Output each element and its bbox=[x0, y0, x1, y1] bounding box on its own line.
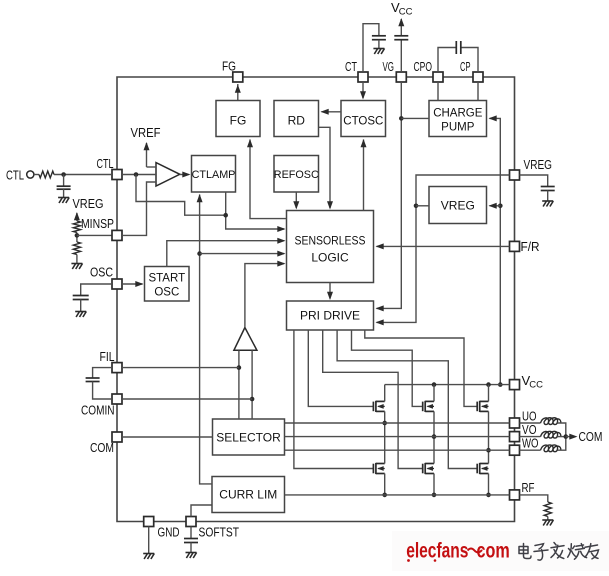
ground for VREG capacitor bbox=[542, 201, 553, 207]
pin F/R bbox=[510, 241, 520, 251]
START OSC output to SENSORLESS bbox=[167, 241, 284, 267]
FG output wire from SENSORLESS up to FG block bbox=[250, 140, 287, 219]
external VREG wire to capacitor bbox=[520, 175, 548, 187]
feedback staircase wire CTL junction to CTLAMP bottom node bbox=[136, 175, 226, 216]
svg-text:FG: FG bbox=[230, 114, 247, 128]
CTOSC to RD arrow bbox=[322, 111, 342, 113]
resistor on RF pin bbox=[544, 502, 551, 517]
COM output arrow and label bbox=[566, 436, 575, 438]
SENSORLESS bottom to PRI DRIVE arrow bbox=[329, 283, 331, 299]
svg-text:elecfans: elecfans bbox=[406, 538, 468, 562]
capacitor on SOFTST bbox=[184, 539, 198, 543]
WO phase line from SELECTOR to pin bbox=[285, 449, 510, 451]
block FG bbox=[216, 101, 260, 137]
svg-text:VREF: VREF bbox=[131, 126, 161, 140]
svg-text:VREG: VREG bbox=[524, 158, 553, 172]
pin MINSP bbox=[112, 230, 122, 240]
pin VREG right bbox=[510, 170, 520, 180]
svg-text:OSC: OSC bbox=[154, 287, 179, 299]
svg-text:OSC: OSC bbox=[90, 266, 113, 280]
VCC feed up to CHARGE PUMP right input bbox=[490, 118, 501, 384]
CT pin to CTOSC arrow bbox=[362, 82, 364, 98]
gate wire S5 to high-side V FET bbox=[352, 330, 423, 406]
wire resistor to CTL pin with junction bbox=[54, 174, 112, 176]
gate wire S1 to low-side U FET bbox=[294, 330, 374, 469]
block PRI DRIVE bbox=[287, 301, 374, 330]
transistor Q2 high-side V bbox=[423, 401, 434, 412]
svg-text:SELECTOR: SELECTOR bbox=[216, 431, 281, 445]
block SENSORLESS LOGIC bbox=[287, 211, 374, 283]
svg-text:SOFTST: SOFTST bbox=[199, 526, 240, 540]
block RD bbox=[274, 101, 319, 137]
pin GND bbox=[144, 517, 154, 527]
CPO wire to CHARGE PUMP bbox=[437, 82, 439, 101]
ground for OSC capacitor bbox=[75, 312, 86, 318]
capacitor on CTL input bbox=[57, 186, 71, 189]
ground symbol GND pin bbox=[143, 554, 154, 560]
capacitor on VREG pin bbox=[541, 187, 555, 191]
COM wire to SELECTOR bbox=[122, 436, 213, 438]
block CHARGE PUMP bbox=[429, 101, 487, 137]
svg-text:WO: WO bbox=[522, 437, 539, 451]
wire SOFTST pin to CURR LIM bbox=[191, 505, 212, 517]
capacitor on VCC line bbox=[394, 36, 408, 40]
svg-text:REFOSC: REFOSC bbox=[274, 169, 319, 181]
REFOSC down to SENSORLESS top bbox=[295, 192, 297, 208]
svg-text:COM: COM bbox=[90, 441, 114, 455]
triangle right input from SELECTOR with COMIN tap bbox=[251, 350, 253, 419]
svg-text:MINSP: MINSP bbox=[81, 217, 114, 231]
svg-text:CTL: CTL bbox=[6, 169, 24, 183]
transistor Q6 low-side W bbox=[477, 463, 488, 474]
RF sense line from CURR LIM to RF pin bbox=[285, 494, 510, 496]
elecfans logo background bbox=[392, 531, 609, 571]
wire cap to ground bbox=[190, 543, 192, 553]
wire resistor to MINSP junction bbox=[76, 233, 78, 243]
pin VO bbox=[510, 432, 520, 442]
svg-text:CP: CP bbox=[460, 60, 471, 74]
pin CTL bbox=[112, 170, 122, 180]
pin COMIN bbox=[112, 394, 122, 404]
pin FIL bbox=[112, 363, 122, 373]
VO phase line from SELECTOR to pin bbox=[285, 436, 510, 438]
svg-text:CTLAMP: CTLAMP bbox=[192, 169, 236, 181]
svg-text:SENSORLESS: SENSORLESS bbox=[295, 234, 366, 248]
op-amp comparator at CTL bbox=[156, 163, 180, 186]
CTL wire into comparator bbox=[122, 174, 156, 176]
pin RF bbox=[510, 490, 520, 500]
wire resistor to ground bbox=[76, 255, 78, 264]
block CURR LIM bbox=[212, 477, 285, 513]
capacitor on CT pin bbox=[372, 36, 386, 40]
gate wire S6 to high-side W FET bbox=[365, 330, 477, 406]
ground for MINSP divider bbox=[71, 264, 82, 270]
ground for SOFTST capacitor bbox=[186, 553, 197, 559]
pin CPO bbox=[433, 72, 443, 82]
wire SOFTST pin to capacitor bbox=[190, 527, 192, 539]
wire junction to MINSP pin bbox=[77, 234, 112, 236]
wire cap to ground bbox=[80, 300, 82, 312]
svg-text:com: com bbox=[477, 538, 510, 562]
U phase bus bbox=[384, 385, 386, 402]
svg-text:VO: VO bbox=[522, 423, 537, 437]
CTLAMP bottom to SENSORLESS input bbox=[226, 192, 285, 229]
external RF wire to resistor bbox=[520, 495, 548, 502]
resistor VREG to MINSP bbox=[73, 221, 80, 233]
wire junction down to capacitor bbox=[63, 175, 65, 187]
svg-text:FIL: FIL bbox=[100, 350, 115, 364]
long vertical CURR LIM to CTLAMP with branch to SENSORLESS bbox=[200, 195, 212, 484]
svg-text:PRI DRIVE: PRI DRIVE bbox=[300, 309, 360, 323]
svg-text:FG: FG bbox=[222, 60, 236, 74]
svg-text:VREG: VREG bbox=[73, 197, 104, 211]
svg-text:UO: UO bbox=[522, 410, 537, 424]
external OSC wire to capacitor bbox=[81, 284, 112, 296]
motor common bus bbox=[558, 423, 566, 450]
comparator lower input wire from MINSP bbox=[122, 182, 156, 235]
pin COM bbox=[112, 432, 122, 442]
inductor WO phase bbox=[520, 449, 541, 451]
gate wire S2 to high-side U FET bbox=[308, 330, 373, 406]
block CTLAMP bbox=[192, 156, 236, 193]
svg-text:CTL: CTL bbox=[97, 157, 114, 171]
W phase bus bbox=[488, 385, 490, 402]
gate wire S3 to low-side V FET bbox=[323, 330, 423, 469]
wire FG block to FG pin with up arrow bbox=[237, 84, 239, 101]
CTL input terminal circle bbox=[27, 171, 34, 178]
block SELECTOR bbox=[213, 419, 285, 455]
svg-text:LOGIC: LOGIC bbox=[311, 251, 349, 265]
Chinese brand characters bbox=[519, 543, 599, 561]
svg-text:CC: CC bbox=[529, 380, 543, 391]
RD output down to SENSORLESS top bbox=[319, 127, 331, 208]
F/R wire to SENSORLESS bbox=[377, 245, 510, 247]
VREG pin line down to PRI DRIVE with VREG block branch bbox=[377, 175, 510, 322]
svg-text:CHARGE: CHARGE bbox=[433, 108, 483, 120]
wire cap to ground bbox=[547, 191, 549, 202]
pin SOFTST bbox=[186, 517, 196, 527]
inductor UO phase bbox=[520, 422, 541, 424]
FIL wire to triangle input bbox=[122, 367, 239, 369]
svg-text:GND: GND bbox=[158, 526, 180, 540]
transistor Q4 low-side U bbox=[373, 463, 384, 474]
block CTOSC bbox=[341, 101, 386, 137]
block REFOSC bbox=[274, 156, 319, 193]
svg-text:CURR LIM: CURR LIM bbox=[219, 488, 277, 502]
series resistor on CTL input bbox=[39, 171, 54, 178]
pin UO bbox=[510, 418, 520, 428]
external VCC wire from VG pin bbox=[400, 40, 402, 72]
pin CP bbox=[473, 72, 483, 82]
svg-text:CPO: CPO bbox=[414, 60, 433, 74]
flying capacitor CPO-CP bbox=[456, 41, 461, 54]
VCC rail bbox=[385, 384, 510, 386]
resistor MINSP to ground bbox=[73, 242, 80, 255]
COMIN wire to triangle input bbox=[122, 398, 252, 400]
external filter wire COMIN side bbox=[93, 382, 112, 400]
external flying capacitor wires bbox=[438, 48, 456, 73]
pin OSC bbox=[112, 279, 122, 289]
svg-text:RD: RD bbox=[288, 114, 306, 128]
triangle output up to SENSORLESS bbox=[245, 264, 284, 328]
VREF wire with up arrow bbox=[147, 166, 157, 168]
svg-text:COMIN: COMIN bbox=[81, 404, 115, 418]
CP wire to CHARGE PUMP bbox=[477, 82, 479, 101]
transistor Q3 high-side W bbox=[477, 401, 488, 412]
svg-text:COM: COM bbox=[579, 430, 603, 444]
external filter wire FIL side bbox=[93, 368, 112, 378]
pin CT bbox=[358, 72, 368, 82]
capacitor on OSC pin bbox=[73, 296, 89, 300]
svg-text:CT: CT bbox=[345, 60, 357, 74]
wire cap to ground bbox=[378, 40, 380, 49]
filter capacitor FIL-COMIN bbox=[86, 378, 100, 382]
wire terminal to resistor bbox=[34, 174, 39, 176]
IC outer boundary box bbox=[117, 77, 515, 522]
OSC pin to START OSC arrow bbox=[122, 283, 143, 285]
pin VCC right bbox=[510, 380, 520, 390]
V phase bus bbox=[433, 385, 435, 402]
pin VG bbox=[396, 72, 406, 82]
wire GND pin to ground bbox=[148, 527, 150, 554]
SENSORLESS top to CTOSC bottom arrow bbox=[363, 140, 365, 211]
wire cap to ground bbox=[63, 189, 65, 197]
svg-text:PUMP: PUMP bbox=[441, 122, 475, 134]
inductor VO phase bbox=[520, 436, 541, 438]
elecfans.com red logo text bbox=[406, 538, 468, 562]
svg-text:VREG: VREG bbox=[441, 199, 475, 213]
svg-text:F/R: F/R bbox=[521, 240, 540, 254]
ground for RF resistor bbox=[542, 520, 553, 526]
gate wire S4 to low-side W FET bbox=[337, 330, 477, 469]
big triangle amplifier above SELECTOR bbox=[234, 328, 257, 351]
transistor Q1 high-side U bbox=[373, 401, 384, 412]
svg-text:CC: CC bbox=[399, 7, 413, 18]
block START OSC bbox=[145, 267, 190, 302]
svg-text:VG: VG bbox=[383, 60, 395, 74]
block VREG bbox=[429, 187, 487, 224]
UO phase line from SELECTOR to pin bbox=[285, 422, 510, 424]
svg-text:RF: RF bbox=[522, 481, 535, 495]
svg-text:CTOSC: CTOSC bbox=[343, 116, 383, 128]
transistor Q5 low-side V bbox=[423, 463, 434, 474]
triangle left input from SELECTOR with FIL tap bbox=[238, 350, 240, 419]
external CT wire to capacitor bbox=[363, 24, 379, 72]
ground for CT capacitor bbox=[373, 49, 384, 55]
pin WO bbox=[510, 445, 520, 455]
wire resistor to ground bbox=[547, 517, 549, 521]
VG line down to PRI DRIVE with CHARGE PUMP branch bbox=[377, 82, 402, 308]
comparator output to CTLAMP bbox=[180, 174, 189, 176]
pin FG bbox=[233, 72, 243, 82]
svg-text:START: START bbox=[148, 273, 185, 285]
VREG arrow up on divider bbox=[76, 213, 78, 221]
ground for CTL capacitor bbox=[58, 198, 69, 204]
